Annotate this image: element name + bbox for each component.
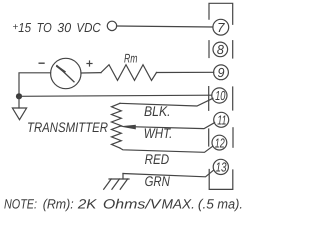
wire meter to resistor (81, 72, 101, 74)
wire WHT wiper to terminal 11 (136, 123, 215, 129)
terminal 10 (212, 88, 227, 103)
svg-text:11: 11 (217, 113, 226, 128)
terminal 13 (213, 159, 228, 174)
svg-text:12: 12 (215, 135, 226, 150)
meter plus sign (87, 61, 92, 66)
svg-text:GRN: GRN (145, 173, 171, 189)
chassis ground hatch 3 (120, 179, 127, 189)
ground G1 stem (18, 96, 20, 108)
wire supply to terminal 7 (117, 26, 213, 27)
svg-text:(Rm):: (Rm): (43, 196, 74, 211)
ground G1 triangle (12, 108, 26, 120)
terminal 12 side bars (208, 129, 210, 146)
terminal block top bracket (209, 3, 233, 24)
meter needle (57, 66, 74, 82)
svg-text:2K: 2K (77, 196, 98, 211)
svg-text:TRANSMITTER: TRANSMITTER (27, 120, 108, 135)
note text (4, 196, 243, 211)
svg-text:9: 9 (218, 65, 225, 80)
wire RED pot bottom to terminal 12 (120, 146, 213, 152)
svg-text:10: 10 (215, 88, 226, 103)
meter minus sign (39, 62, 44, 64)
terminal 8 side bars (208, 41, 210, 58)
ground wire to terminal 10 (19, 95, 212, 96)
terminal block bottom bracket (209, 170, 233, 190)
svg-text:MAX.: MAX. (162, 196, 196, 211)
svg-text:13: 13 (216, 160, 228, 175)
open terminal circle (supply) (107, 21, 116, 30)
wire GRN chassis to terminal 13 (123, 170, 213, 177)
svg-text:Ohms/V: Ohms/V (103, 196, 162, 211)
meter M (51, 58, 81, 88)
wire resistor to terminal 9 (157, 71, 214, 73)
terminal 12 (212, 135, 227, 150)
svg-text:RED: RED (145, 151, 170, 167)
svg-text:TO: TO (37, 20, 52, 35)
resistor Rm zigzag (101, 65, 157, 81)
wire BLK pot top to terminal 10 (120, 98, 213, 106)
terminal 8 (213, 42, 228, 57)
svg-text:BLK.: BLK. (144, 103, 171, 119)
terminal 10 side bars (208, 87, 210, 111)
junction dot (16, 93, 22, 99)
chassis ground stem (122, 174, 124, 180)
svg-text:NOTE:: NOTE: (4, 196, 37, 211)
chassis ground bar (109, 178, 129, 180)
chassis ground hatch 2 (112, 179, 120, 189)
svg-text:15: 15 (18, 20, 31, 35)
chassis ground hatch 1 (104, 179, 112, 189)
svg-text:30: 30 (57, 20, 72, 35)
meter wire left segment (19, 73, 51, 97)
svg-text:WHT.: WHT. (144, 125, 173, 141)
svg-text:Rm: Rm (124, 51, 138, 65)
terminal 7 (213, 19, 229, 35)
wiper arrow (119, 125, 136, 130)
svg-text:7: 7 (217, 20, 225, 35)
svg-text:VDC: VDC (76, 20, 101, 35)
svg-text:8: 8 (217, 42, 225, 57)
terminal 9 (214, 65, 229, 80)
svg-text:(.5: (.5 (198, 196, 215, 211)
terminal 11 (214, 112, 229, 127)
svg-text:ma).: ma). (217, 196, 243, 211)
potentiometer element zigzag (112, 103, 122, 148)
supply label +15 TO 30 VDC (12, 20, 101, 35)
